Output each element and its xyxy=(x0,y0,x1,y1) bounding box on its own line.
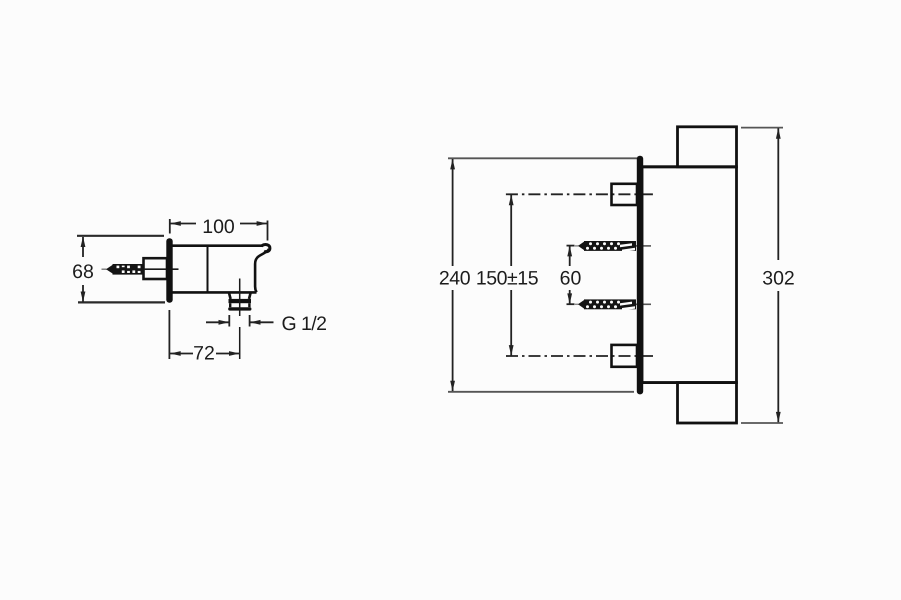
dim 302 dimension line lower xyxy=(777,291,779,422)
bottom protrusion box xyxy=(678,383,737,423)
dim 100 line left segment with arrow xyxy=(171,223,197,225)
dim 100 right tick xyxy=(267,221,269,241)
dim 100 line right segment with arrow xyxy=(240,223,267,225)
dim 68 upper arrow xyxy=(81,237,86,248)
upper screw centerline stub xyxy=(636,245,651,247)
outlet white band side edges xyxy=(229,303,231,307)
top protrusion box xyxy=(678,127,737,167)
dim 68 top extension line xyxy=(77,235,164,237)
outlet centerline vertical xyxy=(239,279,241,317)
screw threaded body xyxy=(113,264,144,275)
upper wall screw body xyxy=(584,241,636,251)
dim 240 top extension line xyxy=(448,157,637,159)
nipple rectangle xyxy=(144,258,168,279)
dim 150±15 dimension line upper xyxy=(510,195,512,266)
outlet dark ring band xyxy=(229,299,252,303)
svg-text:68: 68 xyxy=(72,261,94,283)
dim 72 right extension line xyxy=(239,327,241,359)
upper wall screw tip xyxy=(578,241,585,251)
lower screw white thread dots xyxy=(586,301,635,311)
outlet upper trapezoid edges xyxy=(229,293,231,299)
dim 60 top tick xyxy=(567,245,575,247)
dim 68 dimension line upper segment xyxy=(82,237,84,257)
dim 68 dimension line lower segment xyxy=(82,285,84,302)
screw tip centerline stub xyxy=(102,268,107,270)
lower wall screw body xyxy=(584,299,636,309)
dim 100 left tick xyxy=(169,219,171,234)
svg-text:240: 240 xyxy=(439,268,471,290)
body bottom line xyxy=(173,291,257,294)
lower screw centerline stub xyxy=(636,303,651,305)
body spout curl xyxy=(262,245,270,252)
dim G 1/2 line right with arrow xyxy=(250,321,274,323)
dim 68 bottom extension line xyxy=(78,301,165,303)
upper screw tip stub xyxy=(574,245,579,247)
dim G 1/2 left tick xyxy=(228,315,230,327)
dim 302 dimension line upper xyxy=(777,128,779,260)
screw tip cone xyxy=(106,264,114,274)
upper screw white thread dots xyxy=(586,242,635,252)
main body rectangle xyxy=(642,167,737,383)
dim 302 top extension line xyxy=(741,127,783,129)
svg-text:60: 60 xyxy=(560,268,582,290)
dim 150±15 dimension line lower xyxy=(510,290,512,356)
redraw body bottom line over box top xyxy=(642,381,737,384)
wall plate (left figure) xyxy=(166,238,172,302)
body top line xyxy=(173,244,264,247)
dim 60 dimension line upper xyxy=(569,246,571,266)
dim 60 dimension line lower xyxy=(569,290,571,304)
body division line xyxy=(207,246,209,292)
dim G 1/2 right tick xyxy=(249,315,251,327)
dim 60 bottom tick xyxy=(567,303,575,305)
bottom connector box xyxy=(612,345,638,367)
svg-text:302: 302 xyxy=(762,268,795,290)
svg-text:72: 72 xyxy=(193,343,215,365)
dim 302 bottom extension line xyxy=(741,422,783,424)
wall plate (right figure) xyxy=(637,156,643,395)
dim 240 dimension line upper xyxy=(452,159,454,266)
svg-text:150±15: 150±15 xyxy=(476,268,539,290)
dim 68 lower arrow xyxy=(81,292,86,303)
screw thread white dots xyxy=(117,266,141,273)
top connector box xyxy=(612,184,638,205)
svg-text:G 1/2: G 1/2 xyxy=(282,313,327,335)
dash-dot centerline top (hand shower holder) xyxy=(506,193,656,195)
dim G 1/2 line left with arrow xyxy=(206,321,229,323)
lower wall screw tip xyxy=(578,299,585,309)
dim 72 line right segment with arrow xyxy=(216,353,240,355)
redraw body top line over box bottom xyxy=(642,165,737,168)
body right edge curve xyxy=(255,249,269,292)
dash-dot centerline bottom xyxy=(506,355,653,357)
dim 72 line left segment with arrow xyxy=(170,353,193,355)
dim 72 left extension line xyxy=(168,310,170,359)
dim 240 bottom extension line xyxy=(448,391,634,393)
dim 240 dimension line lower xyxy=(452,290,454,391)
svg-text:100: 100 xyxy=(202,216,235,238)
lower screw tip stub xyxy=(574,303,579,305)
outlet bottom dark band xyxy=(228,307,251,310)
screw centerline through nipple and plate xyxy=(144,268,179,270)
